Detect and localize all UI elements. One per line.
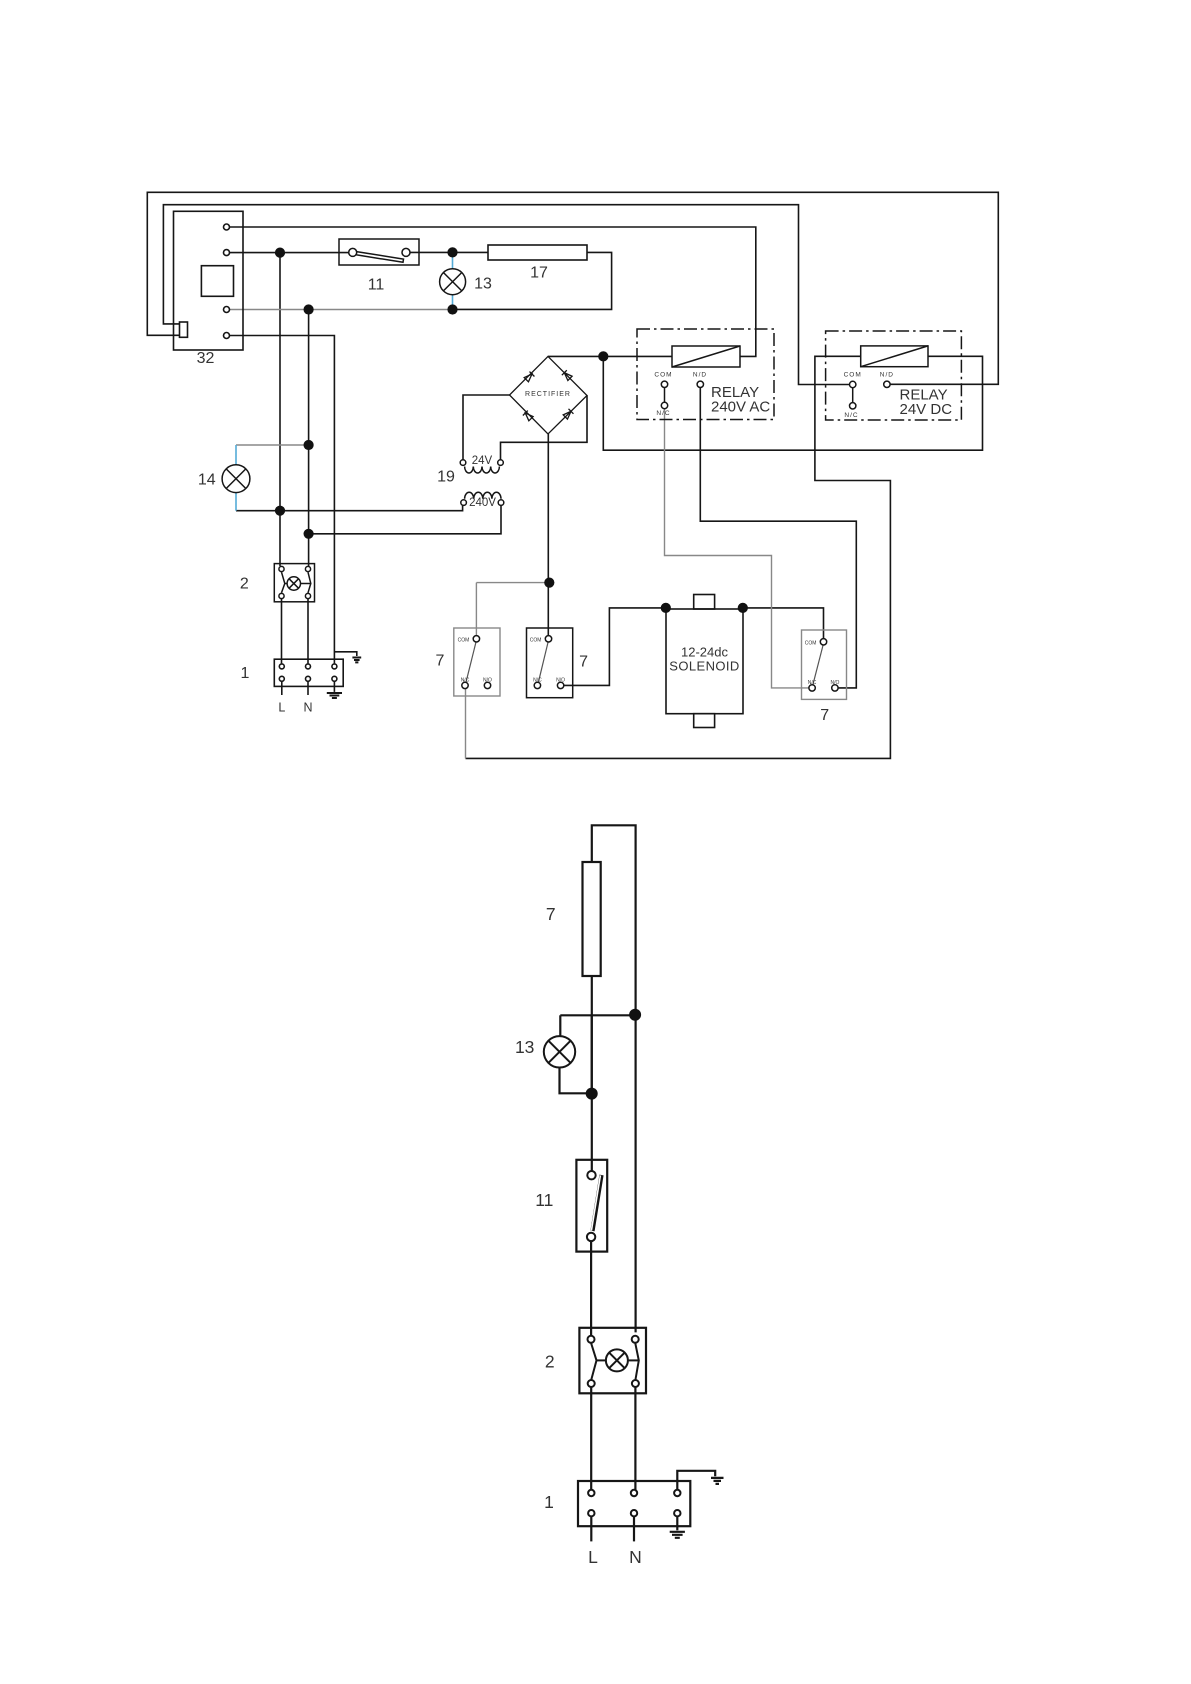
svg-text:N/C: N/C — [656, 410, 670, 417]
svg-text:19: 19 — [437, 468, 455, 485]
svg-text:N/C: N/C — [461, 677, 470, 683]
svg-text:11: 11 — [368, 277, 385, 294]
svg-text:7: 7 — [546, 904, 556, 924]
svg-text:N/O: N/O — [830, 680, 839, 686]
svg-text:1: 1 — [241, 665, 250, 682]
svg-text:COM: COM — [654, 372, 672, 379]
svg-text:7: 7 — [820, 707, 829, 724]
svg-text:N/D: N/D — [880, 372, 894, 379]
svg-text:1: 1 — [544, 1492, 554, 1512]
svg-text:240V AC: 240V AC — [711, 399, 770, 416]
svg-text:13: 13 — [474, 276, 492, 293]
svg-text:24V DC: 24V DC — [900, 401, 953, 418]
svg-text:RECTIFIER: RECTIFIER — [525, 391, 571, 398]
svg-text:32: 32 — [197, 350, 215, 367]
svg-text:N/C: N/C — [844, 412, 858, 419]
svg-text:N: N — [629, 1547, 642, 1567]
svg-text:240V: 240V — [469, 497, 496, 509]
svg-text:7: 7 — [579, 654, 588, 671]
svg-text:COM: COM — [530, 637, 542, 643]
svg-text:13: 13 — [515, 1037, 534, 1057]
svg-text:N/O: N/O — [483, 677, 492, 683]
svg-text:12-24dc: 12-24dc — [681, 645, 728, 660]
svg-text:L: L — [278, 701, 285, 715]
svg-text:N/C: N/C — [533, 677, 542, 683]
svg-text:COM: COM — [844, 372, 862, 379]
svg-text:L: L — [588, 1547, 598, 1567]
svg-text:24V: 24V — [472, 455, 493, 467]
svg-text:COM: COM — [458, 637, 470, 643]
svg-text:11: 11 — [535, 1190, 553, 1210]
svg-text:SOLENOID: SOLENOID — [669, 659, 739, 674]
svg-text:17: 17 — [530, 265, 548, 282]
svg-text:2: 2 — [240, 576, 249, 593]
svg-text:N/D: N/D — [693, 372, 707, 379]
svg-text:COM: COM — [805, 640, 817, 646]
svg-text:2: 2 — [545, 1352, 555, 1372]
svg-text:N/O: N/O — [556, 677, 565, 683]
svg-text:14: 14 — [198, 471, 216, 488]
svg-text:N/C: N/C — [808, 680, 817, 686]
svg-text:N: N — [303, 701, 312, 715]
svg-text:7: 7 — [436, 653, 445, 670]
